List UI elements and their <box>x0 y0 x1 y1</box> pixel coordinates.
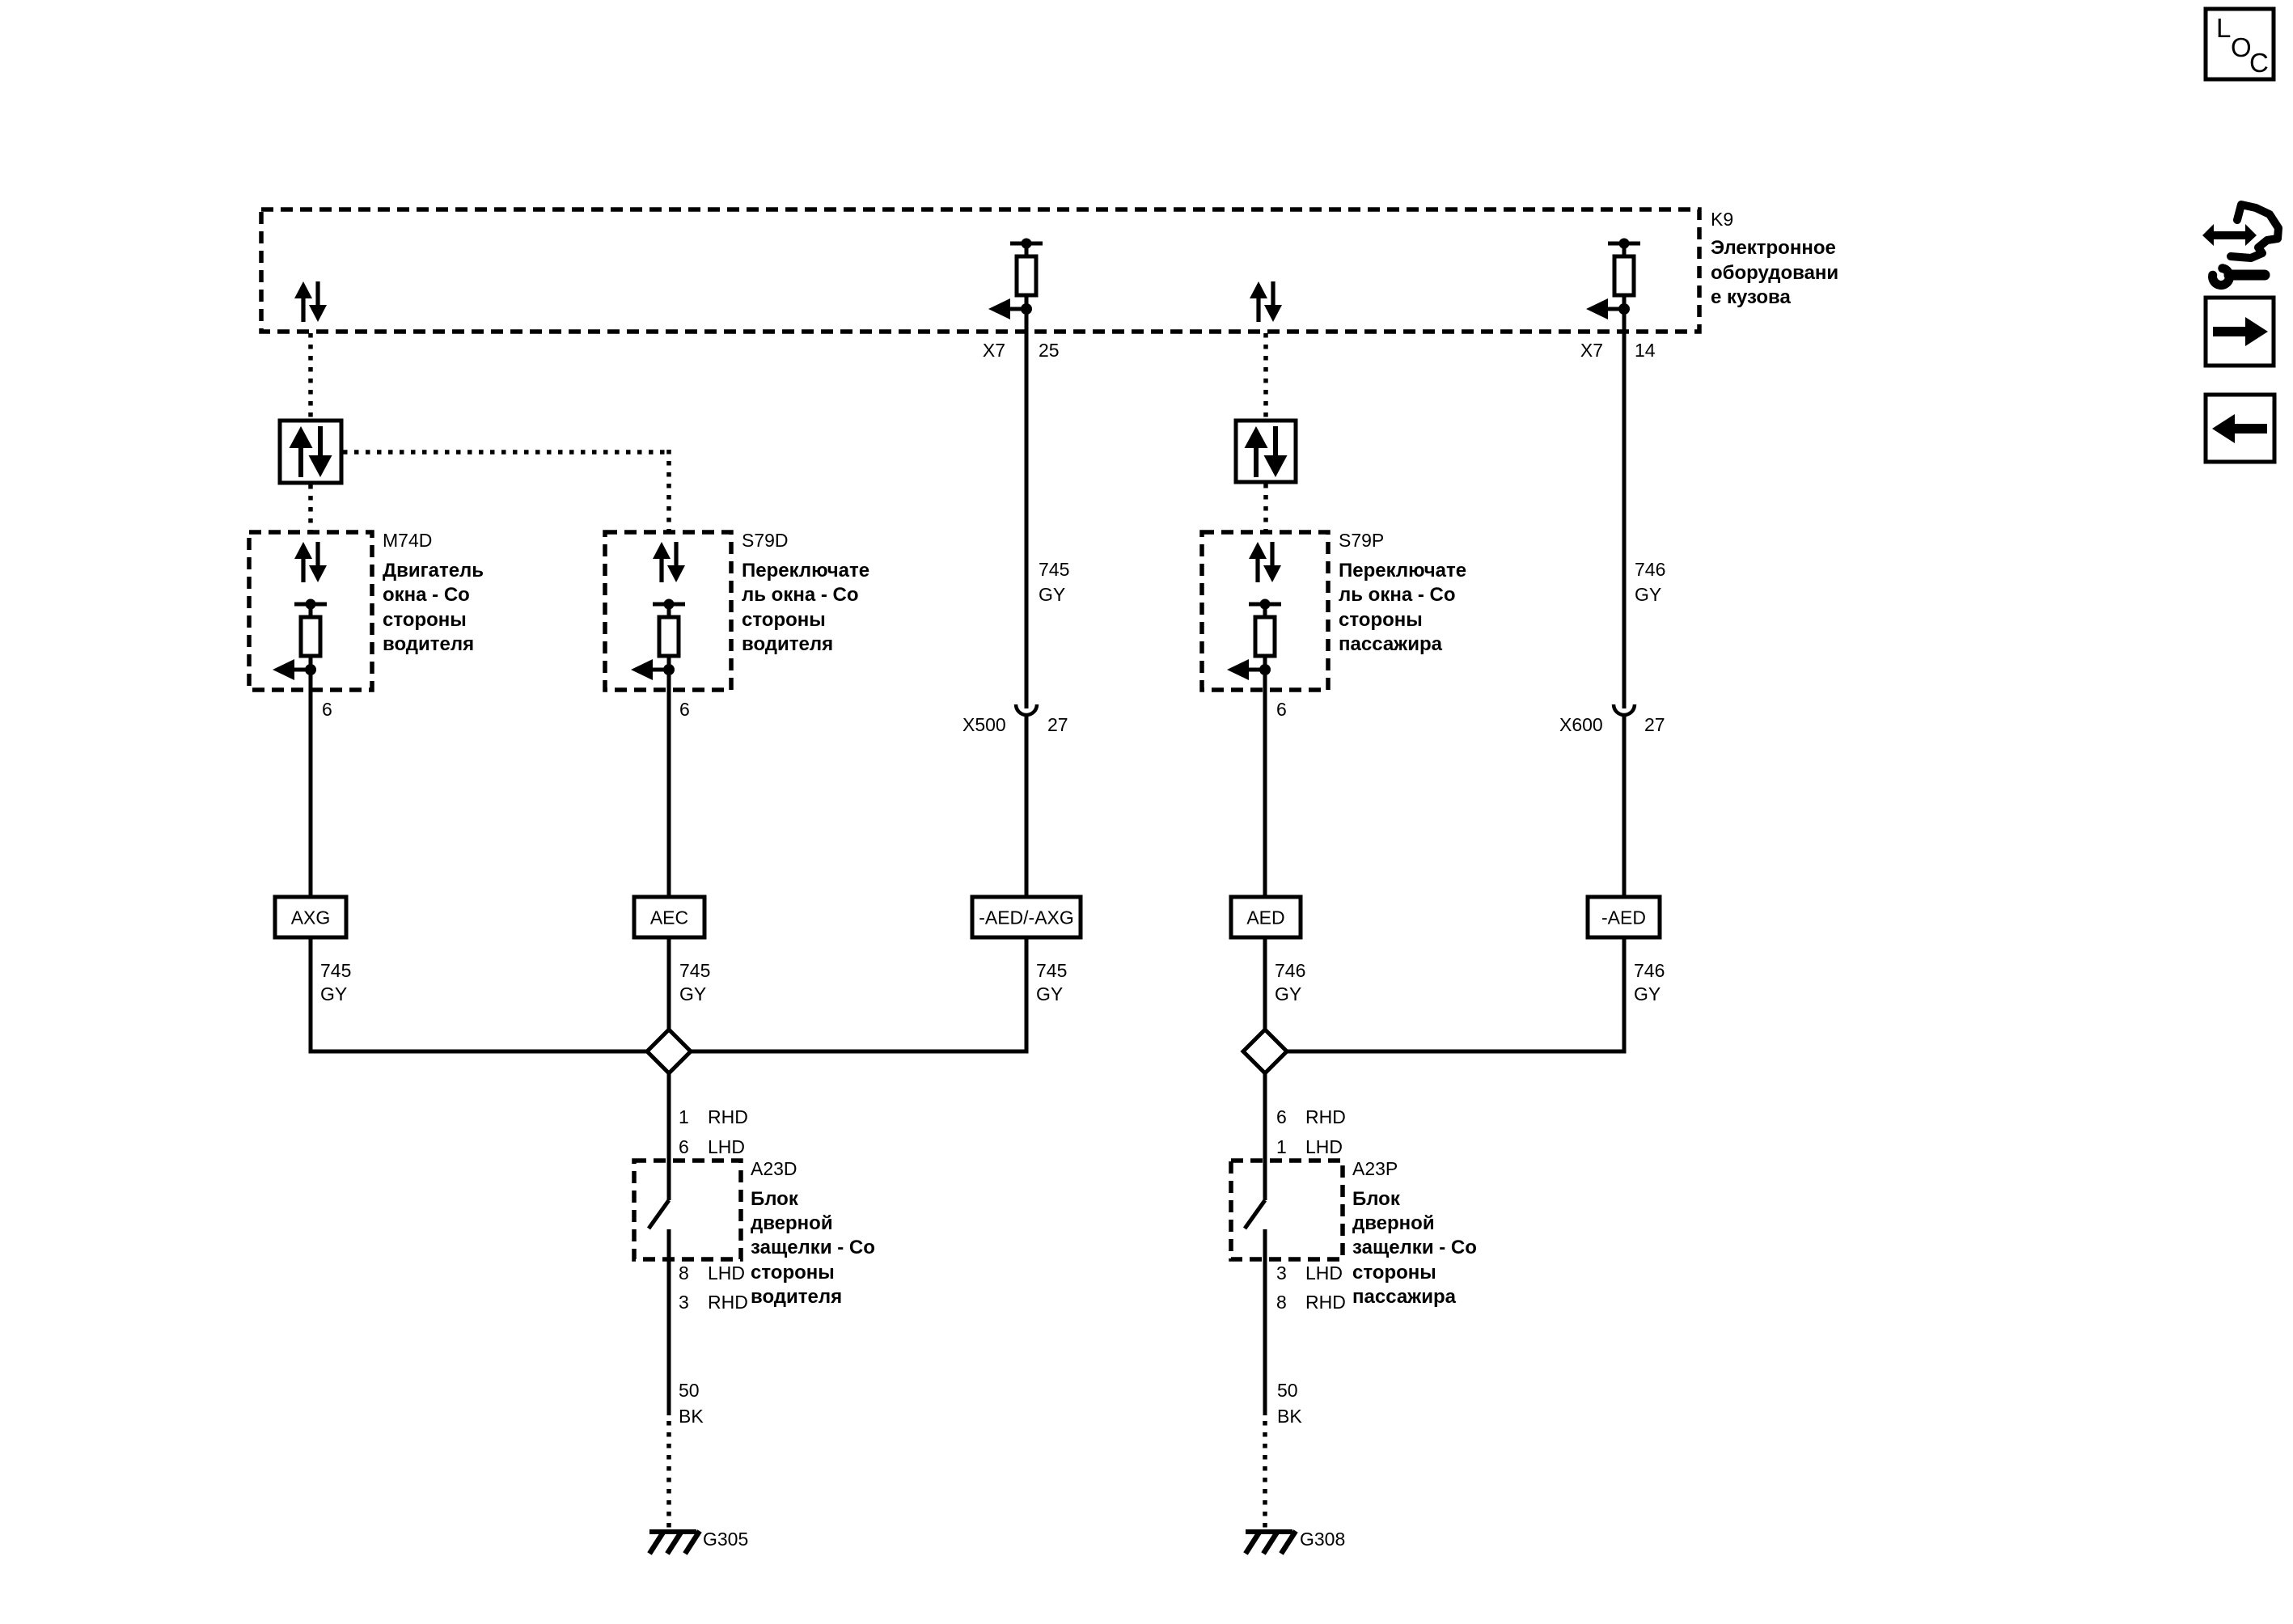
svg-text:L: L <box>2216 13 2231 43</box>
svg-text:3: 3 <box>1276 1262 1287 1284</box>
svg-text:-AED/-AXG: -AED/-AXG <box>979 907 1074 928</box>
svg-text:6: 6 <box>679 699 690 720</box>
svg-text:G305: G305 <box>703 1529 748 1550</box>
svg-text:дверной: дверной <box>1352 1212 1435 1234</box>
svg-text:BK: BK <box>679 1406 704 1427</box>
svg-text:пассажира: пассажира <box>1352 1286 1457 1308</box>
svg-text:O: O <box>2231 32 2252 62</box>
svg-text:RHD: RHD <box>708 1292 748 1313</box>
svg-text:X600: X600 <box>1559 714 1603 735</box>
svg-text:6: 6 <box>322 699 332 720</box>
svg-text:водителя: водителя <box>742 633 833 655</box>
svg-text:GY: GY <box>1635 584 1661 605</box>
svg-text:GY: GY <box>1275 983 1301 1004</box>
svg-text:X500: X500 <box>962 714 1006 735</box>
svg-text:M74D: M74D <box>383 530 432 551</box>
svg-text:8: 8 <box>679 1262 689 1284</box>
svg-text:AEC: AEC <box>650 907 688 928</box>
svg-text:ль окна - Со: ль окна - Со <box>1339 584 1456 606</box>
svg-text:защелки - Со: защелки - Со <box>1352 1237 1477 1258</box>
svg-text:AXG: AXG <box>291 907 331 928</box>
svg-text:LHD: LHD <box>708 1136 745 1157</box>
svg-text:27: 27 <box>1047 714 1068 735</box>
svg-text:GY: GY <box>679 983 706 1004</box>
svg-text:оборудовани: оборудовани <box>1711 262 1838 284</box>
svg-text:745: 745 <box>1036 960 1067 981</box>
svg-text:746: 746 <box>1275 960 1305 981</box>
svg-text:-AED: -AED <box>1601 907 1646 928</box>
svg-text:BK: BK <box>1277 1406 1302 1427</box>
svg-text:водителя: водителя <box>751 1286 842 1308</box>
svg-text:3: 3 <box>679 1292 689 1313</box>
svg-text:е кузова: е кузова <box>1711 286 1791 308</box>
svg-text:A23P: A23P <box>1352 1158 1398 1179</box>
svg-text:LHD: LHD <box>1305 1136 1343 1157</box>
svg-text:8: 8 <box>1276 1292 1287 1313</box>
svg-text:1: 1 <box>679 1106 689 1127</box>
svg-text:14: 14 <box>1635 340 1656 361</box>
svg-text:GY: GY <box>1634 983 1661 1004</box>
svg-text:Блок: Блок <box>1352 1188 1401 1210</box>
svg-text:LHD: LHD <box>1305 1262 1343 1284</box>
svg-text:6: 6 <box>1276 1106 1287 1127</box>
svg-text:K9: K9 <box>1711 209 1733 230</box>
svg-text:745: 745 <box>679 960 710 981</box>
svg-text:GY: GY <box>320 983 347 1004</box>
svg-text:GY: GY <box>1039 584 1065 605</box>
svg-text:дверной: дверной <box>751 1212 833 1234</box>
svg-text:27: 27 <box>1644 714 1665 735</box>
svg-text:50: 50 <box>679 1380 700 1401</box>
svg-text:LHD: LHD <box>708 1262 745 1284</box>
svg-text:Блок: Блок <box>751 1188 799 1210</box>
svg-text:водителя: водителя <box>383 633 474 655</box>
svg-text:Переключате: Переключате <box>742 560 869 582</box>
svg-text:стороны: стороны <box>383 609 467 631</box>
svg-text:A23D: A23D <box>751 1158 797 1179</box>
svg-text:C: C <box>2249 48 2269 78</box>
svg-text:стороны: стороны <box>1352 1262 1436 1284</box>
svg-text:пассажира: пассажира <box>1339 633 1443 655</box>
svg-text:стороны: стороны <box>1339 609 1423 631</box>
svg-text:AED: AED <box>1246 907 1284 928</box>
svg-text:G308: G308 <box>1300 1529 1345 1550</box>
svg-text:X7: X7 <box>983 340 1005 361</box>
svg-text:RHD: RHD <box>1305 1106 1346 1127</box>
svg-text:745: 745 <box>1039 559 1069 580</box>
svg-text:50: 50 <box>1277 1380 1298 1401</box>
svg-text:Переключате: Переключате <box>1339 560 1466 582</box>
svg-text:X7: X7 <box>1580 340 1603 361</box>
svg-text:745: 745 <box>320 960 351 981</box>
svg-text:RHD: RHD <box>708 1106 748 1127</box>
svg-text:746: 746 <box>1634 960 1665 981</box>
svg-text:S79D: S79D <box>742 530 789 551</box>
svg-text:S79P: S79P <box>1339 530 1384 551</box>
svg-text:25: 25 <box>1039 340 1060 361</box>
svg-text:ль окна - Со: ль окна - Со <box>742 584 859 606</box>
svg-text:6: 6 <box>1276 699 1287 720</box>
svg-text:6: 6 <box>679 1136 689 1157</box>
svg-text:1: 1 <box>1276 1136 1287 1157</box>
svg-text:защелки - Со: защелки - Со <box>751 1237 875 1258</box>
svg-text:Двигатель: Двигатель <box>383 560 484 582</box>
svg-text:Электронное: Электронное <box>1711 237 1836 259</box>
svg-text:окна - Со: окна - Со <box>383 584 470 606</box>
svg-text:RHD: RHD <box>1305 1292 1346 1313</box>
svg-text:стороны: стороны <box>751 1262 835 1284</box>
svg-text:746: 746 <box>1635 559 1665 580</box>
svg-text:стороны: стороны <box>742 609 826 631</box>
svg-text:GY: GY <box>1036 983 1063 1004</box>
